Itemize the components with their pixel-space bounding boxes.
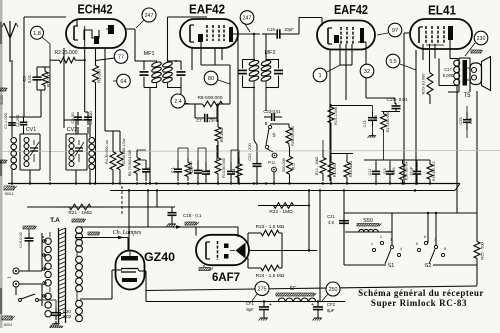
svg-text:C25: C25: [459, 118, 463, 125]
node 230: [465, 31, 488, 56]
svg-text:T.A: T.A: [50, 217, 60, 224]
label T.A: [50, 217, 60, 224]
svg-text:R5-30.000-1/2w: R5-30.000-1/2w: [122, 138, 126, 165]
svg-text:C23-0,01: C23-0,01: [263, 109, 281, 114]
resistor R24-1,5M: [256, 265, 285, 279]
resistor R10-50.000: [215, 148, 226, 184]
svg-text:CV2: CV2: [67, 127, 77, 133]
svg-text:C22 - 200: C22 - 200: [247, 142, 252, 160]
MF1 secondary cap: [177, 72, 186, 75]
svg-text:C16: C16: [267, 27, 275, 32]
6AF7 ground: [199, 265, 213, 271]
capacitor C14-0,01: [382, 97, 409, 112]
capacitor C16 20pF: [253, 27, 295, 39]
capacitor C20-0,02: [42, 300, 72, 328]
capacitor C17 5.000: [59, 67, 454, 333]
transformer TA core: [59, 228, 66, 323]
svg-text:SF: SF: [289, 286, 297, 292]
svg-text:C7: C7: [196, 118, 202, 123]
tuning capacitor CV2: [67, 127, 84, 167]
svg-text:Super Rimlock RC-83: Super Rimlock RC-83: [371, 298, 467, 308]
svg-text:30.000: 30.000: [0, 95, 4, 105]
svg-text:R11: R11: [292, 163, 296, 170]
node 80: [204, 71, 230, 85]
tube 6AF7 envelope: [196, 235, 249, 265]
node 1,8: [31, 26, 51, 181]
svg-text:250: 250: [329, 287, 338, 293]
node 275: [252, 282, 269, 302]
switch S1: [371, 235, 402, 269]
label MF2: [265, 50, 276, 56]
speaker hatch mark: [471, 50, 483, 53]
capacitor C3 0,01: [22, 67, 42, 90]
svg-text:R10-50.000: R10-50.000: [222, 158, 226, 178]
EAF42-1 electrodes: [190, 25, 233, 42]
EL41 electrodes: [419, 26, 453, 45]
tube EAF42 second envelope: [317, 21, 375, 50]
svg-text:EAF42: EAF42: [189, 3, 225, 17]
svg-text:5: 5: [416, 242, 418, 246]
svg-text:R14-1.500: R14-1.500: [334, 107, 338, 125]
tube EL41 envelope: [410, 19, 472, 49]
node 77: [114, 50, 128, 64]
resistor R7-300: [178, 148, 193, 181]
capacitor C4-500: [84, 111, 93, 125]
svg-text:ECH42: ECH42: [78, 3, 113, 17]
capacitor C1-2.000: [4, 113, 16, 129]
capacitor C8 0,1b: [198, 148, 211, 184]
node 2,4: [171, 94, 191, 108]
capacitor C23-0,01: [263, 109, 282, 121]
svg-text:247: 247: [145, 13, 154, 19]
svg-text:30013: 30013: [5, 192, 14, 196]
ground bus: [8, 183, 460, 185]
capacitor C13 250: [363, 106, 378, 138]
svg-text:S1: S1: [388, 263, 395, 269]
svg-text:R21 - 1MΩ: R21 - 1MΩ: [68, 210, 92, 216]
svg-text:30011: 30011: [4, 323, 13, 327]
svg-text:R4-30.000-1w: R4-30.000-1w: [105, 140, 109, 164]
svg-text:P.U.: P.U.: [268, 160, 276, 165]
svg-text:5,5: 5,5: [389, 59, 396, 65]
MF2 secondary coil: [261, 59, 272, 87]
resistor R9-1MO: [215, 104, 224, 148]
MF1 secondary coil: [162, 61, 173, 88]
resistor R2 25.000: [50, 50, 86, 63]
svg-text:CF2: CF2: [327, 302, 336, 307]
svg-text:+: +: [269, 302, 272, 308]
MF2 cap right: [274, 70, 283, 73]
svg-text:R25 - 500: R25 - 500: [480, 241, 485, 259]
svg-text:C21: C21: [327, 214, 335, 219]
svg-text:5.000: 5.000: [443, 73, 454, 78]
tuning capacitor CV1: [24, 127, 39, 167]
svg-text:R6-70.000-1/2W: R6-70.000-1/2W: [128, 149, 132, 176]
svg-text:C13: C13: [363, 121, 367, 128]
switch S detection: [265, 125, 275, 148]
label GZ40: [144, 250, 175, 264]
MF1 primary cap: [140, 72, 149, 75]
node 247 second: [240, 11, 254, 32]
svg-text:C5: C5: [146, 167, 151, 173]
antenna coil L1: [11, 138, 17, 170]
node 64: [113, 74, 130, 88]
title line 2: [371, 298, 467, 308]
loudspeaker: [467, 57, 491, 91]
MF2 cap left: [238, 70, 247, 73]
svg-text:~: ~: [7, 275, 11, 282]
capacitor CF2 8uF: [311, 302, 336, 321]
label EL41: [428, 4, 456, 18]
resistor R23-1,5M: [256, 224, 285, 236]
svg-text:1: 1: [318, 73, 321, 79]
svg-text:CF1: CF1: [246, 301, 255, 306]
transformer T5: [454, 59, 471, 100]
svg-text:R26-50.000: R26-50.000: [291, 126, 295, 146]
resistor R11-500.000: [282, 147, 296, 184]
svg-text:250: 250: [209, 118, 217, 123]
svg-text:80: 80: [208, 76, 214, 82]
svg-text:20pF: 20pF: [284, 27, 294, 32]
node 32: [360, 63, 374, 78]
capacitor C7 250: [195, 114, 217, 123]
svg-text:2,4: 2,4: [174, 99, 181, 105]
svg-text:0,1: 0,1: [170, 166, 175, 172]
node 247 first: [136, 8, 156, 28]
resistor R13-200: [328, 156, 337, 184]
svg-text:77: 77: [118, 55, 124, 61]
resistor R21-1MO: [55, 204, 105, 216]
EAF42-2 electrodes: [328, 27, 364, 44]
resistor R1-100: [42, 67, 51, 90]
svg-text:C2-200: C2-200: [16, 115, 20, 127]
capacitor C2-200: [16, 115, 27, 127]
svg-text:R2 25.000: R2 25.000: [54, 50, 77, 56]
capacitor C3-50: [70, 112, 82, 125]
label ECH42: [78, 3, 113, 17]
capacitor CF1 8uF: [246, 301, 272, 321]
svg-text:2: 2: [380, 235, 382, 239]
svg-text:C1-1.000: C1-1.000: [4, 113, 8, 129]
label EAF42 first: [189, 3, 225, 17]
resistor R19-500.000: [427, 160, 436, 184]
tube ECH42 envelope: [66, 19, 126, 48]
svg-text:8µF: 8µF: [246, 307, 254, 312]
svg-text:S: S: [272, 133, 275, 139]
node 1 circ: [313, 65, 340, 82]
svg-text:0,02: 0,02: [63, 314, 72, 319]
svg-text:C3: C3: [22, 76, 27, 82]
resistor R17-150.000: [381, 112, 391, 161]
svg-text:MF2: MF2: [265, 50, 276, 56]
filter coil S50: [357, 218, 382, 232]
label MF1: [144, 51, 155, 57]
capacitor C18-0,1: [167, 207, 203, 227]
svg-text:7: 7: [434, 238, 436, 242]
svg-text:+: +: [311, 302, 314, 308]
svg-text:250: 250: [374, 115, 378, 121]
sub rail: [330, 126, 353, 156]
heater hatch stamp: [88, 222, 199, 239]
resistor R8-500.000: [195, 95, 230, 107]
left edge scan marks: [0, 0, 3, 328]
svg-text:Ch. Lampes: Ch. Lampes: [113, 230, 142, 236]
tuning gang dashed link: [121, 186, 123, 214]
svg-text:C19-0,02: C19-0,02: [19, 232, 23, 248]
svg-text:230: 230: [477, 36, 486, 42]
svg-text:32: 32: [364, 69, 370, 75]
svg-text:4: 4: [400, 247, 402, 251]
svg-text:C15: C15: [392, 168, 396, 175]
antenna: [2, 21, 18, 62]
capacitor C21 4,5: [327, 214, 349, 228]
title line 1: [358, 288, 484, 298]
svg-text:C3-50: C3-50: [70, 112, 75, 124]
svg-text:C6: C6: [189, 167, 194, 173]
svg-text:R23 - 1,5 MΩ: R23 - 1,5 MΩ: [256, 224, 285, 230]
junction dots on ground bus: [11, 182, 437, 302]
MF1 primary coil: [151, 61, 162, 88]
svg-text:R18-150-1w: R18-150-1w: [405, 161, 409, 180]
svg-text:Schéma général du récepteur: Schéma général du récepteur: [358, 288, 484, 298]
svg-text:R22 - 1MΩ: R22 - 1MΩ: [269, 209, 293, 215]
resistor R5-30.000: [117, 138, 126, 184]
svg-text:1,8: 1,8: [33, 31, 41, 37]
capacitor C15 0,5: [383, 160, 396, 184]
capacitor C16 20uF elec: [410, 160, 422, 184]
svg-text:C4-500: C4-500: [88, 111, 93, 125]
svg-text:EAF42: EAF42: [334, 3, 368, 17]
capacitor C8 0,1: [227, 150, 238, 184]
svg-text:1: 1: [371, 242, 373, 246]
svg-text:0,5: 0,5: [383, 168, 387, 173]
svg-text:R16-1MΩ: R16-1MΩ: [349, 161, 353, 178]
node 97: [377, 23, 402, 37]
svg-text:R13-200: R13-200: [333, 163, 337, 178]
svg-text:R12 - 1MΩ: R12 - 1MΩ: [315, 157, 319, 176]
label EAF42 second: [334, 3, 368, 17]
svg-text:R17-150.000: R17-150.000: [386, 112, 390, 133]
capacitor C5: [137, 150, 151, 181]
svg-text:8µF: 8µF: [327, 308, 335, 313]
label Ch. Lampes: [113, 230, 142, 236]
resistor R22-1MO: [258, 203, 309, 215]
resistor R6-70.000: [128, 149, 140, 181]
scan fold line: [0, 151, 500, 152]
margin mark 1: [0, 88, 7, 105]
svg-text:S50: S50: [363, 218, 373, 224]
mains switch: [19, 294, 39, 302]
capacitor C12: [364, 160, 430, 184]
svg-text:T5: T5: [463, 93, 471, 99]
svg-text:C12: C12: [368, 169, 372, 176]
tube EAF42 first envelope: [180, 19, 238, 48]
svg-text:EL41: EL41: [428, 4, 456, 18]
svg-text:R20-10.000: R20-10.000: [421, 73, 426, 95]
capacitor C6: [189, 148, 202, 184]
svg-text:6: 6: [424, 235, 426, 239]
choke SF: [276, 286, 316, 302]
svg-text:S2: S2: [425, 263, 432, 269]
svg-text:275: 275: [258, 286, 267, 292]
svg-text:6AF7: 6AF7: [212, 272, 240, 284]
resistor R18-150-1W: [400, 160, 409, 184]
svg-text:R3-160: R3-160: [97, 68, 102, 82]
svg-text:4,5: 4,5: [328, 220, 334, 225]
ECH42 electrodes: [74, 25, 114, 48]
svg-text:247: 247: [243, 15, 252, 21]
oscillator coil L2: [89, 138, 95, 170]
ground left stamp: [4, 186, 17, 196]
resistor R25-500: [474, 238, 485, 262]
node 5,5: [386, 54, 416, 70]
svg-text:R9-1MΩ: R9-1MΩ: [219, 127, 224, 142]
margin mark 2: [0, 160, 7, 163]
svg-text:0,1: 0,1: [231, 167, 236, 173]
resistor R12-1MO: [315, 140, 326, 181]
svg-text:500.000: 500.000: [282, 158, 286, 172]
capacitor C19-0,02: [19, 226, 37, 271]
label 6AF7: [212, 272, 240, 284]
GZ40 electrodes: [121, 251, 139, 283]
mains plug: [7, 268, 19, 287]
svg-text:64: 64: [120, 79, 126, 85]
svg-text:C18 - 0,1: C18 - 0,1: [183, 213, 202, 218]
svg-text:97: 97: [392, 28, 398, 34]
resistor R20-10.000: [421, 72, 434, 96]
switch S2: [416, 235, 446, 269]
svg-text:C17: C17: [444, 67, 452, 72]
resistor R3-160: [93, 62, 102, 86]
transformer TA primary: [43, 232, 52, 317]
node 250: [322, 282, 340, 301]
TA hatch stamp: [72, 219, 86, 222]
svg-text:CV1: CV1: [26, 127, 36, 133]
pickup P.U.: [267, 149, 277, 172]
svg-text:0,01: 0,01: [27, 74, 32, 83]
capacitor C22-200: [247, 142, 262, 169]
svg-text:8: 8: [444, 247, 446, 251]
resistor R27 under: [236, 150, 242, 184]
transformer TA secondary: [76, 227, 83, 322]
capacitor C25 250: [459, 106, 473, 138]
resistor R14-1.500: [328, 104, 373, 126]
resistor R26-50.000: [286, 124, 295, 147]
svg-text:20 µF: 20 µF: [410, 166, 414, 176]
svg-text:C14 - 0,01: C14 - 0,01: [386, 97, 408, 102]
svg-text:250: 250: [469, 118, 473, 124]
tube GZ40 envelope: [116, 251, 145, 290]
svg-text:0,1: 0,1: [206, 168, 211, 174]
svg-text:R24 - 1,5 MΩ: R24 - 1,5 MΩ: [256, 273, 285, 279]
svg-text:MF1: MF1: [144, 51, 155, 57]
svg-text:3: 3: [390, 238, 392, 242]
resistor R16-1MO: [344, 154, 353, 184]
svg-text:GZ40: GZ40: [144, 250, 175, 264]
svg-text:R19-500.000: R19-500.000: [432, 161, 436, 181]
margin mark 3: [2, 316, 15, 327]
capacitor 0,1 under MF1: [169, 100, 182, 181]
MF2 primary coil: [249, 59, 260, 87]
svg-text:R8-500.000: R8-500.000: [197, 95, 222, 101]
resistor R4-30.000: [105, 138, 116, 184]
6AF7 electrodes: [206, 241, 246, 260]
svg-text:R1-100: R1-100: [46, 72, 51, 86]
